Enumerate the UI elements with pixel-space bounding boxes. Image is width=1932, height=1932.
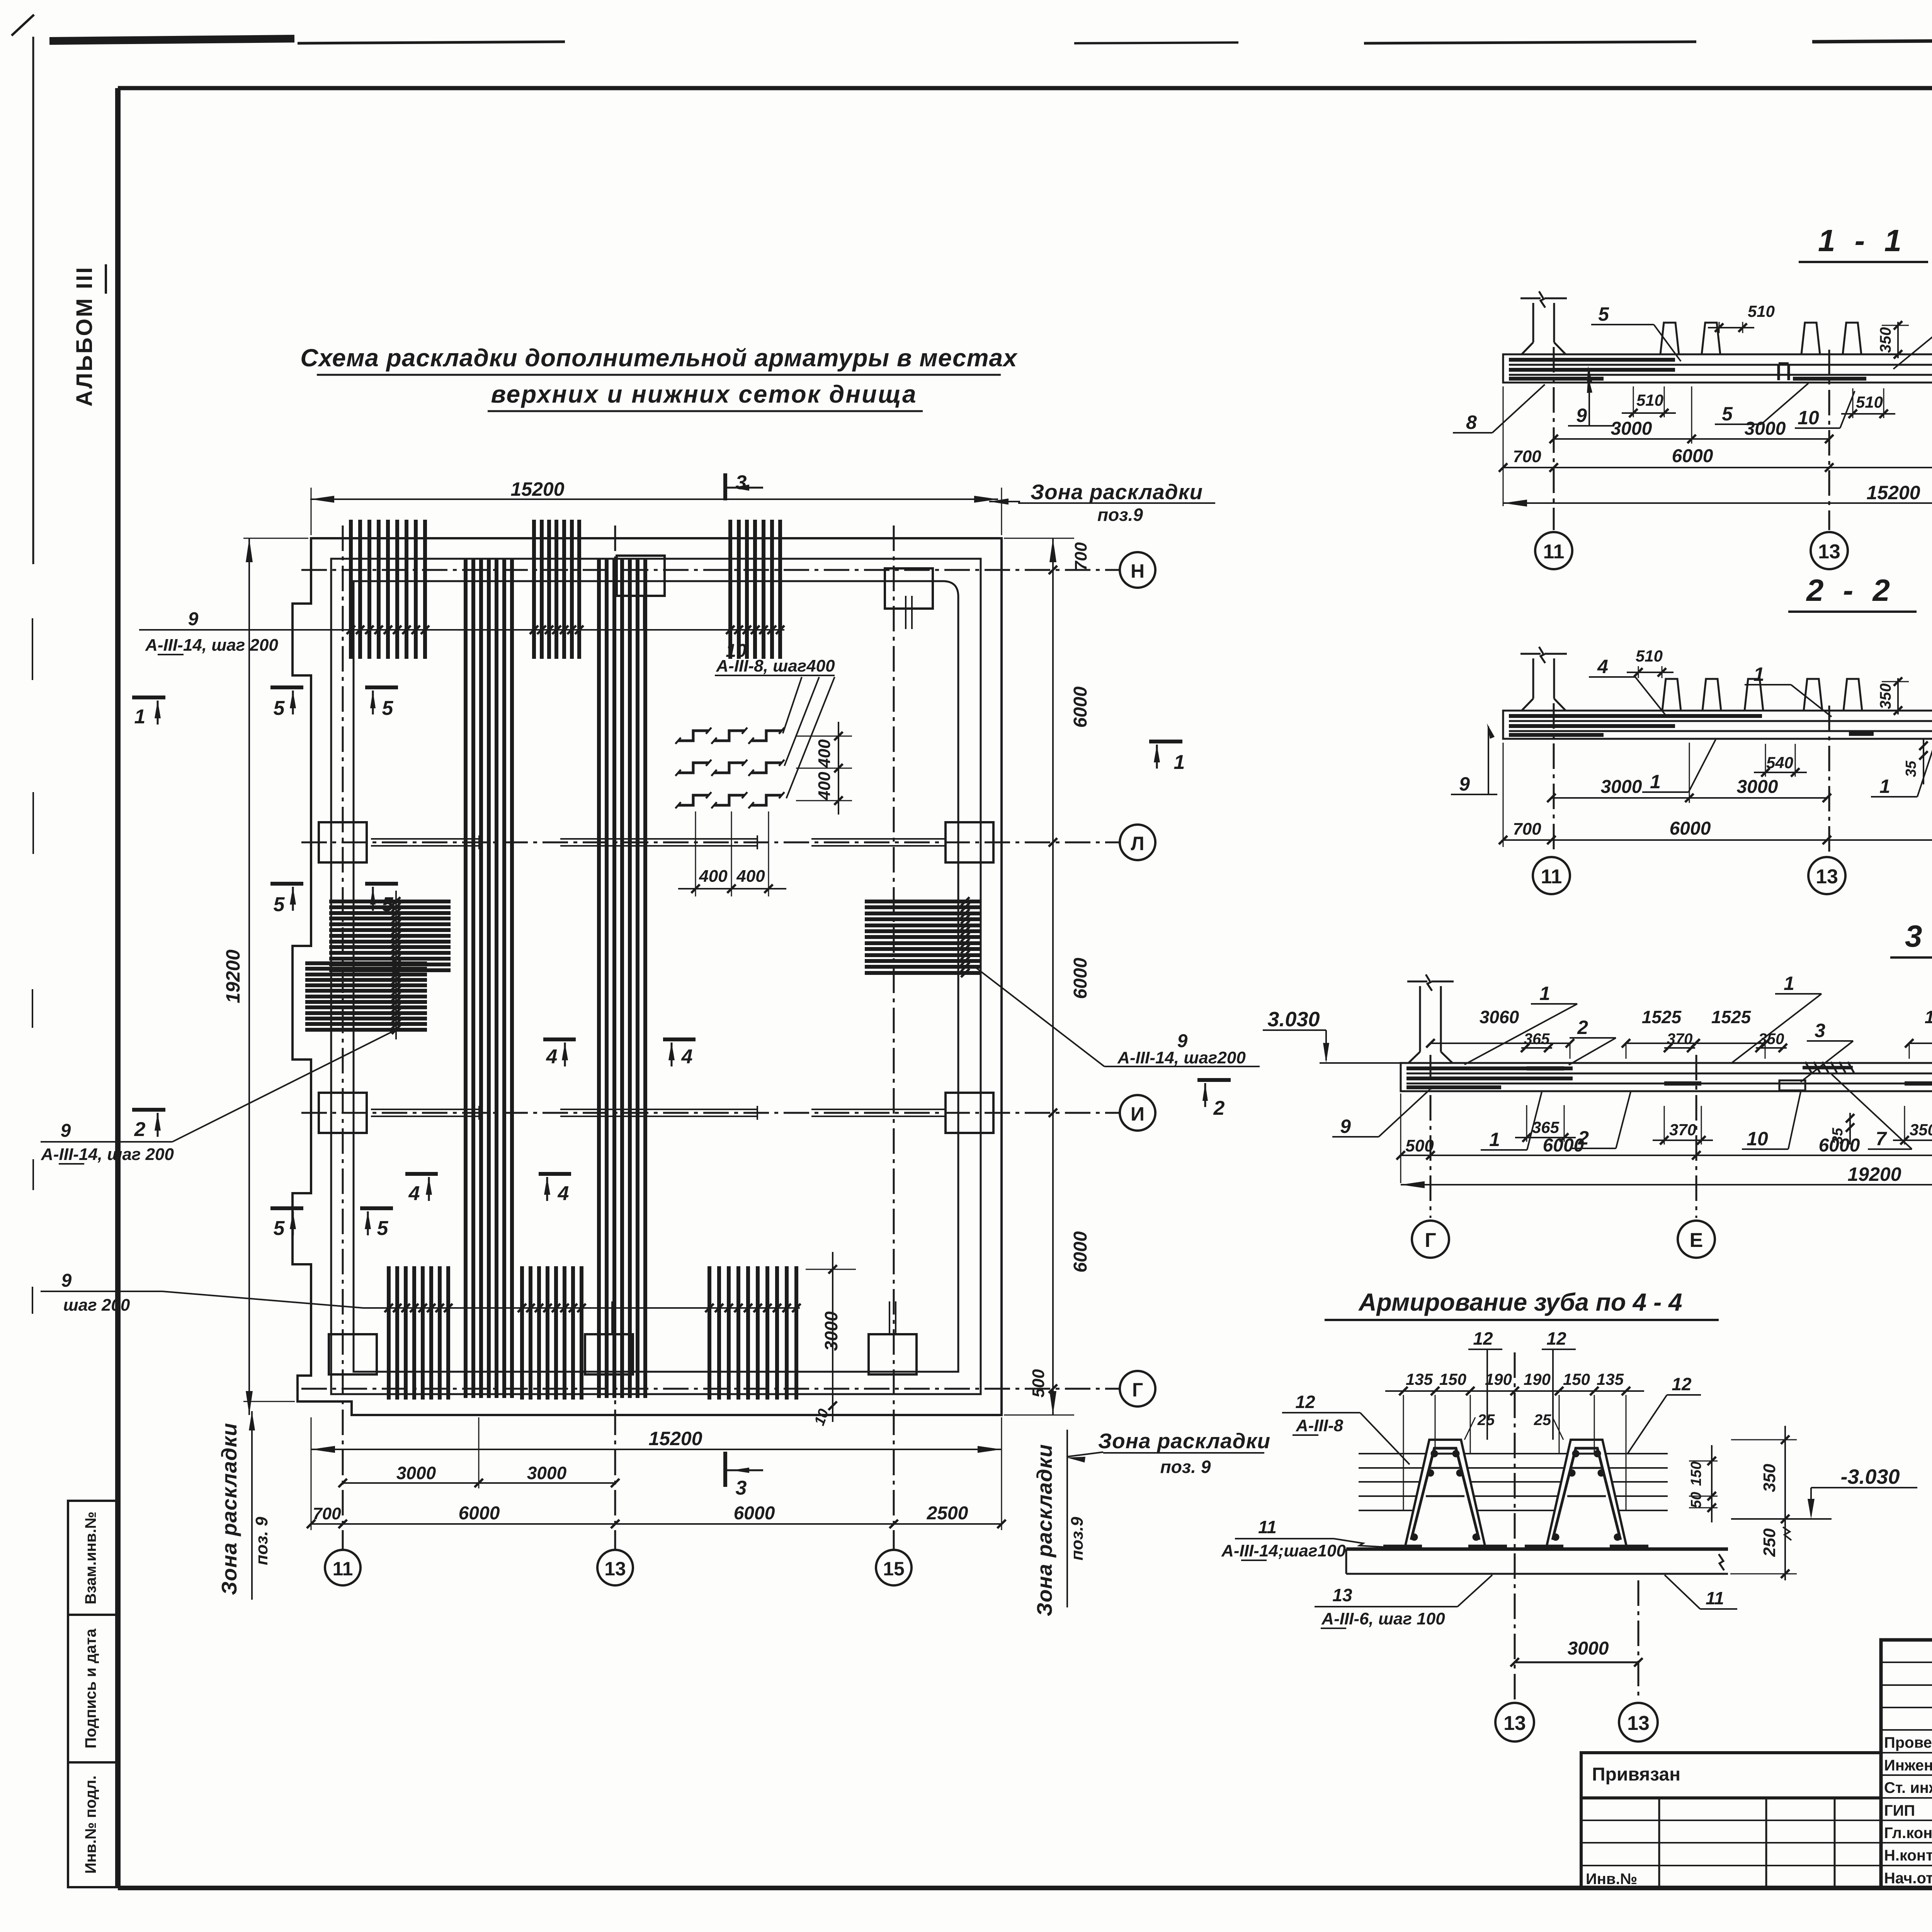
svg-text:А-III-6, шаг 100: А-III-6, шаг 100 — [1321, 1609, 1445, 1628]
section 1-1 dim row 15200 — [1503, 482, 1932, 507]
plan axis line Л — [301, 842, 1120, 844]
svg-text:6000: 6000 — [459, 1503, 500, 1524]
dimension 19200 (plan left) — [222, 538, 308, 1415]
section 1-1 dim row 3000 3000 — [1549, 386, 1833, 444]
svg-text:Инв.№ подл.: Инв.№ подл. — [82, 1776, 99, 1874]
svg-text:6000: 6000 — [1670, 818, 1711, 839]
svg-text:150: 150 — [1563, 1370, 1590, 1388]
svg-text:4: 4 — [681, 1046, 693, 1068]
layout line with ticks (middle-left, pos.9) — [392, 891, 400, 1039]
svg-text:5: 5 — [274, 1217, 285, 1240]
svg-text:поз. 9: поз. 9 — [1160, 1457, 1211, 1477]
svg-text:Зона раскладки: Зона раскладки — [1032, 1444, 1056, 1616]
svg-text:шаг 200: шаг 200 — [63, 1296, 130, 1315]
svg-text:Инженер: Инженер — [1884, 1757, 1932, 1774]
svg-text:1: 1 — [1879, 776, 1890, 797]
svg-text:3000: 3000 — [1611, 418, 1652, 439]
svg-text:Н.контр.: Н.контр. — [1884, 1847, 1932, 1864]
svg-text:Подпись и дата: Подпись и дата — [82, 1628, 99, 1748]
detail 4-4 right dims 350 250 — [1730, 1426, 1797, 1580]
svg-text:-3.030: -3.030 — [1840, 1465, 1900, 1488]
svg-text:500: 500 — [1405, 1136, 1434, 1155]
svg-text:510: 510 — [1636, 391, 1663, 409]
svg-text:Проверил: Проверил — [1884, 1734, 1932, 1751]
section 1-1 dim row 700 6000 6000 2500 — [1499, 386, 1932, 506]
svg-text:19200: 19200 — [222, 949, 244, 1003]
detail 4-4 tooth 2 outline — [1546, 1440, 1627, 1549]
leader lines to splice symbols — [783, 677, 802, 733]
detail 4-4 dim 3000 — [1510, 1638, 1643, 1667]
plan axis line И — [301, 1112, 1120, 1114]
rebar group pos.9 middle-left lower (horizontal) — [305, 963, 427, 1030]
svg-text:5: 5 — [382, 697, 394, 719]
left margin box Взам.инв.№ — [68, 1501, 118, 1615]
svg-text:Взам.инв.№: Взам.инв.№ — [82, 1512, 99, 1604]
zone label top-right Зона раскладки поз.9 — [989, 480, 1215, 525]
svg-text:Нач.отд.: Нач.отд. — [1884, 1870, 1932, 1887]
section 3-3 left wall — [1419, 986, 1421, 1052]
svg-text:поз.9: поз.9 — [1068, 1517, 1087, 1560]
zone label bottom-right Зона раскладки поз.9 (rotated) — [1032, 1430, 1087, 1616]
plan axis line 11 — [342, 526, 344, 1550]
detail 4-4 center axis 13 (left) — [1514, 1352, 1516, 1701]
svg-text:4: 4 — [408, 1182, 420, 1205]
svg-text:13: 13 — [1332, 1585, 1352, 1605]
section marks 5 (top pair) — [270, 685, 303, 689]
svg-text:И: И — [1131, 1103, 1145, 1125]
detail 4-4 tooth 2 reinforcement cage — [1525, 1448, 1648, 1547]
detail 4-4 axis 13 (right) — [1638, 1580, 1639, 1701]
svg-text:Зона раскладки: Зона раскладки — [217, 1423, 241, 1595]
section 3-3 bottom dim 350 — [1893, 1106, 1932, 1145]
column pad 13/Г — [585, 1334, 633, 1374]
svg-text:5: 5 — [1598, 303, 1609, 325]
detail 4-4 vertical grid/extension lines — [1403, 1395, 1626, 1511]
plan axis line 13 — [614, 526, 616, 1550]
axis circle Г (plan) — [1120, 1371, 1155, 1406]
svg-text:3000: 3000 — [527, 1463, 567, 1483]
zone label bottom-left Зона раскладки поз.9 (rotated) — [217, 1411, 271, 1600]
sheet torn top edge — [49, 36, 1932, 46]
svg-text:400: 400 — [699, 867, 728, 886]
svg-text:150: 150 — [1439, 1370, 1466, 1388]
svg-text:13: 13 — [604, 1558, 626, 1580]
detail 4-4 axis circles 13 13 — [1495, 1703, 1534, 1742]
section 2-2 axis lines — [1553, 703, 1555, 855]
svg-text:25: 25 — [1534, 1412, 1551, 1429]
detail 4-4 inner dims 150 50 — [1688, 1445, 1718, 1522]
svg-text:АЛЬБОМ III: АЛЬБОМ III — [72, 266, 97, 407]
svg-text:13: 13 — [1816, 866, 1838, 888]
svg-text:12: 12 — [1473, 1328, 1493, 1349]
section 2-2 left wall — [1532, 658, 1534, 699]
svg-text:Схема раскладки дополнительной: Схема раскладки дополнительной арматуры … — [300, 344, 1018, 372]
section 2-2 dim 540 left — [1754, 744, 1807, 777]
svg-text:12: 12 — [1295, 1392, 1315, 1412]
svg-text:3000: 3000 — [396, 1463, 436, 1483]
svg-text:Н: Н — [1131, 560, 1145, 582]
svg-text:13: 13 — [1818, 541, 1840, 563]
svg-text:3000: 3000 — [821, 1311, 841, 1351]
svg-text:3000: 3000 — [1568, 1638, 1609, 1659]
svg-text:Зона раскладки: Зона раскладки — [1031, 480, 1203, 504]
joint keys along axis И — [371, 1106, 946, 1120]
svg-text:1: 1 — [1489, 1129, 1500, 1150]
rebar group pos.9 bottom #3 — [709, 1266, 796, 1400]
svg-text:1525: 1525 — [1711, 1007, 1752, 1027]
rebar group pos.9 top #3 — [730, 520, 780, 659]
section 2-2 dim row 3000 3000 — [1547, 743, 1831, 803]
svg-text:11: 11 — [1706, 1588, 1724, 1608]
section 2-2 axis circles — [1533, 857, 1570, 894]
svg-text:13: 13 — [1503, 1712, 1526, 1735]
dimension 15200 (plan bottom) — [311, 1417, 1002, 1530]
section 3-3 bottom dim 365 left — [1515, 1105, 1576, 1142]
section 3-3 slab rebar — [1406, 1068, 1932, 1087]
svg-text:7: 7 — [1876, 1128, 1887, 1150]
svg-text:Привязан: Привязан — [1592, 1764, 1680, 1785]
axis circle И (plan) — [1120, 1095, 1155, 1131]
section 2-2 dim 350 tooth height — [1877, 677, 1909, 715]
svg-text:3000: 3000 — [1737, 777, 1778, 797]
detail 4-4 top dims 135 150 190 190 150 135 — [1385, 1370, 1644, 1395]
column pad 11/Л — [319, 822, 367, 862]
svg-text:400: 400 — [815, 739, 834, 768]
axis circle 15 (plan) — [876, 1550, 912, 1585]
svg-text:510: 510 — [1748, 302, 1775, 320]
dimension 400 400 (horizontal, splice grid) — [678, 811, 786, 896]
svg-text:9: 9 — [188, 609, 199, 629]
svg-text:1: 1 — [134, 706, 146, 728]
section 1-1 dim 510 below-left — [1622, 386, 1676, 417]
svg-text:11: 11 — [1541, 866, 1562, 888]
svg-text:10: 10 — [1747, 1128, 1768, 1150]
svg-text:350: 350 — [1910, 1121, 1932, 1139]
section 1-1 slab outline — [1503, 354, 1932, 383]
section 1-1 left wall — [1532, 303, 1534, 342]
title block small-column grid — [1881, 1640, 1932, 1888]
svg-text:500: 500 — [1029, 1369, 1048, 1398]
section 1-1 dim 510 top pair1 — [1708, 302, 1775, 333]
svg-text:А-III-8: А-III-8 — [1296, 1416, 1344, 1435]
section marks 4 (upper pair) — [543, 1037, 576, 1041]
section 3-3 hash bars pos.7 — [1803, 1062, 1932, 1073]
svg-text:11: 11 — [333, 1558, 353, 1580]
svg-text:5: 5 — [377, 1217, 389, 1240]
axis circle 13 (plan) — [597, 1550, 633, 1585]
section 2-2 dim 35 — [1903, 739, 1928, 784]
section 2-2 teeth — [1662, 679, 1681, 711]
section 1-1 dim 510 below-center — [1841, 388, 1895, 418]
svg-text:1525: 1525 — [1925, 1007, 1932, 1027]
svg-text:2: 2 — [1213, 1097, 1225, 1119]
svg-text:8: 8 — [1466, 412, 1477, 433]
section mark 3 (top) — [723, 473, 727, 500]
section 3-3 dim 35 — [1830, 1113, 1854, 1145]
detail 4-4 mesh grid lines — [1359, 1454, 1668, 1510]
rebar group pos.9 bottom #2 — [522, 1266, 582, 1400]
svg-text:1 - 1: 1 - 1 — [1818, 223, 1907, 258]
section 3-3 bottom dim 370 — [1653, 1106, 1713, 1145]
svg-text:4: 4 — [1597, 656, 1608, 677]
svg-text:А-III-8, шаг400: А-III-8, шаг400 — [716, 656, 835, 675]
svg-text:15200: 15200 — [648, 1428, 702, 1449]
svg-text:700: 700 — [1071, 542, 1090, 571]
svg-text:135: 135 — [1406, 1370, 1433, 1388]
column pad 13/Н — [617, 556, 665, 596]
svg-text:А-III-14, шаг200: А-III-14, шаг200 — [1117, 1048, 1246, 1067]
column pad 15/Г — [869, 1334, 917, 1374]
svg-text:Ст. инж.: Ст. инж. — [1884, 1779, 1932, 1796]
svg-text:12: 12 — [1672, 1374, 1692, 1394]
section 3-3 dim row 500 6000 6000 6000 700 — [1396, 1094, 1932, 1183]
svg-text:50: 50 — [1688, 1492, 1704, 1508]
svg-text:35: 35 — [1903, 760, 1919, 777]
svg-text:400: 400 — [736, 867, 765, 886]
svg-text:4: 4 — [558, 1182, 569, 1205]
section 1-1 slab rebar — [1509, 360, 1932, 379]
section 1-1 teeth — [1660, 323, 1679, 354]
svg-text:1: 1 — [1174, 751, 1185, 774]
svg-text:135: 135 — [1597, 1370, 1624, 1388]
rebar bundle pos.4 left (vertical) — [466, 559, 512, 1398]
plan wall outer face — [331, 559, 981, 1394]
svg-text:150: 150 — [1688, 1461, 1704, 1486]
svg-text:4: 4 — [546, 1046, 558, 1068]
plan axis line Н — [301, 569, 1120, 571]
svg-text:13: 13 — [1627, 1712, 1650, 1735]
rebar group pos.9 middle-right (horizontal) — [865, 897, 981, 977]
svg-text:6000: 6000 — [734, 1503, 775, 1524]
svg-text:250: 250 — [1760, 1528, 1779, 1557]
svg-text:6000: 6000 — [1543, 1135, 1584, 1156]
dimension 15200 (plan top) — [310, 478, 1002, 535]
section marks 5 (bottom pair) — [270, 1206, 303, 1210]
Привязан box — [1581, 1753, 1881, 1798]
svg-text:3: 3 — [1815, 1020, 1825, 1041]
plan wall inner face — [354, 581, 958, 1372]
svg-text:700: 700 — [313, 1504, 341, 1523]
svg-text:350: 350 — [1877, 684, 1894, 709]
rebar group pos.9 middle-left upper (horizontal) — [329, 901, 451, 970]
section 3-3 top dims 3060/1525 — [1426, 1007, 1932, 1059]
svg-text:А-III-14;шаг100: А-III-14;шаг100 — [1221, 1541, 1346, 1560]
section marks 4 (lower pair) — [405, 1172, 438, 1176]
svg-text:9: 9 — [61, 1121, 71, 1141]
detail 4-4 tooth 1 reinforcement cage — [1383, 1448, 1507, 1547]
dimension 700 6000 6000 2500 (plan bottom) — [307, 1503, 1006, 1528]
svg-text:10: 10 — [1798, 407, 1819, 429]
svg-text:3060: 3060 — [1480, 1007, 1519, 1027]
svg-text:9: 9 — [1459, 773, 1470, 795]
svg-text:Инв.№: Инв.№ — [1586, 1871, 1637, 1888]
svg-text:700: 700 — [1513, 447, 1541, 466]
detail 4-4 slab band — [1346, 1548, 1728, 1551]
column pad 11/И — [319, 1093, 367, 1133]
svg-text:2: 2 — [134, 1118, 146, 1141]
svg-text:190: 190 — [1524, 1370, 1551, 1388]
svg-text:365: 365 — [1532, 1118, 1560, 1136]
svg-text:25: 25 — [1477, 1412, 1495, 1429]
plan axis line Г — [301, 1388, 1120, 1390]
section mark 1 (left) — [132, 696, 165, 699]
svg-text:1: 1 — [1650, 771, 1661, 793]
svg-text:9: 9 — [1340, 1116, 1351, 1137]
svg-text:5: 5 — [274, 893, 285, 916]
column pad 15/Н — [885, 568, 933, 609]
plan slab edge outline (stepped) — [293, 538, 1002, 1415]
svg-text:5: 5 — [1722, 403, 1733, 425]
svg-text:5: 5 — [274, 697, 285, 719]
section mark 1 (right) — [1149, 740, 1182, 743]
svg-text:5: 5 — [382, 893, 394, 916]
svg-text:15: 15 — [883, 1558, 905, 1580]
svg-text:15200: 15200 — [1866, 482, 1920, 503]
plan axis line 15 — [893, 526, 895, 1550]
svg-text:3.030: 3.030 — [1267, 1008, 1320, 1031]
svg-text:1: 1 — [1784, 973, 1794, 994]
title block outer frame — [1881, 1640, 1932, 1888]
svg-text:Е: Е — [1690, 1229, 1703, 1252]
joint keys at top and bottom pads (vertical) — [606, 596, 912, 1334]
svg-text:350: 350 — [1760, 1464, 1779, 1492]
section 2-2 dim row 700 6000 6000 2500 — [1499, 743, 1932, 847]
section 1-1 stirrup hooks pos.10 — [1779, 362, 1789, 366]
section 3-3 small top dims 365/370/350/370/365 — [1521, 1031, 1932, 1052]
section 1-1 axis lines — [1553, 347, 1555, 530]
svg-text:Армирование зуба по 4 - 4: Армирование зуба по 4 - 4 — [1358, 1288, 1682, 1316]
dimension 3000 vertical at bottom group — [806, 1252, 856, 1428]
offset-splice symbols pos.10 (3x3 grid) — [675, 728, 784, 808]
dimension 3000 3000 (plan bottom) — [338, 1417, 619, 1488]
svg-text:9: 9 — [1576, 405, 1587, 426]
svg-text:1: 1 — [1539, 983, 1550, 1004]
rebar group pos.9 top #2 — [534, 520, 579, 659]
section mark 2 (right) — [1197, 1078, 1231, 1082]
svg-text:190: 190 — [1485, 1370, 1512, 1388]
svg-text:поз.9: поз.9 — [1097, 505, 1143, 525]
svg-text:12: 12 — [1546, 1328, 1566, 1349]
section 3-3 key rectangle pos.3 — [1779, 1080, 1805, 1090]
section 2-2 dim 510 top-left — [1627, 647, 1673, 678]
dimension 400 400 (vertical, splice grid) — [796, 722, 852, 815]
svg-text:3000: 3000 — [1745, 418, 1786, 439]
svg-text:Г: Г — [1425, 1229, 1436, 1252]
svg-text:Гл.констр: Гл.констр — [1884, 1825, 1932, 1842]
column pad И right — [946, 1093, 993, 1133]
svg-text:3000: 3000 — [1601, 777, 1642, 797]
svg-text:15200: 15200 — [510, 478, 564, 500]
svg-text:поз. 9: поз. 9 — [252, 1517, 271, 1565]
svg-text:2500: 2500 — [927, 1503, 968, 1524]
svg-text:350: 350 — [1877, 327, 1894, 353]
inventory mini table — [1581, 1798, 1881, 1888]
section 1-1 axis circles — [1535, 532, 1572, 569]
svg-text:ГИП: ГИП — [1884, 1802, 1915, 1819]
svg-text:3: 3 — [736, 471, 747, 494]
layout line with ticks (bottom, pos.9) — [363, 1304, 801, 1312]
svg-text:370: 370 — [1669, 1121, 1696, 1139]
left margin box Подпись и дата — [68, 1615, 118, 1762]
svg-text:19200: 19200 — [1847, 1163, 1901, 1185]
column pad Л right — [946, 822, 993, 862]
svg-text:510: 510 — [1856, 393, 1883, 411]
svg-text:11: 11 — [1543, 541, 1565, 563]
sheet left edge — [32, 37, 34, 564]
svg-text:6000: 6000 — [1672, 446, 1713, 466]
joint keys along axis Л — [371, 835, 946, 849]
svg-text:Зона раскладки: Зона раскладки — [1098, 1429, 1270, 1453]
rebar bundle pos.4 right (vertical) — [599, 559, 645, 1398]
svg-text:9: 9 — [61, 1270, 72, 1291]
left margin box Инв.№ подл. — [68, 1762, 118, 1887]
svg-text:3 - 3: 3 - 3 — [1905, 919, 1932, 953]
svg-text:6000: 6000 — [1070, 1231, 1091, 1272]
section 2-2 slab outline — [1503, 711, 1932, 739]
section mark 3 (bottom) — [723, 1452, 727, 1487]
rebar group pos.9 top #1 — [351, 520, 425, 659]
plan right vertical dimension chain 700/6000/6000/6000/500 — [1004, 538, 1091, 1415]
svg-text:А-III-14, шаг 200: А-III-14, шаг 200 — [41, 1145, 174, 1164]
section 3-3 axis lines — [1430, 1055, 1432, 1218]
svg-text:510: 510 — [1636, 647, 1663, 665]
svg-text:1: 1 — [1753, 663, 1764, 685]
svg-text:верхних и нижних сеток днища: верхних и нижних сеток днища — [491, 380, 917, 408]
svg-text:А-III-14, шаг 200: А-III-14, шаг 200 — [145, 636, 278, 655]
detail 4-4 tooth 1 outline — [1405, 1440, 1486, 1549]
svg-text:2: 2 — [1577, 1017, 1588, 1038]
svg-text:Л: Л — [1131, 833, 1144, 854]
svg-text:700: 700 — [1513, 820, 1541, 838]
section 3-3 axis circles — [1412, 1221, 1449, 1258]
svg-text:6000: 6000 — [1819, 1135, 1860, 1156]
section 2-2 slab rebar — [1509, 716, 1932, 735]
svg-text:6000: 6000 — [1070, 686, 1091, 728]
section 3-3 slab outline — [1401, 1063, 1932, 1091]
axis circle Л (plan) — [1120, 825, 1155, 860]
section mark 2 (left) — [132, 1108, 165, 1112]
layout line with ticks (top, pos.9) — [139, 626, 784, 634]
svg-text:6000: 6000 — [1070, 957, 1091, 999]
svg-text:11: 11 — [1258, 1517, 1277, 1537]
rebar group pos.9 bottom #1 — [389, 1266, 448, 1400]
zone label bottom-right Зона раскладки поз.9 (horizontal) — [1066, 1429, 1270, 1477]
svg-text:1525: 1525 — [1642, 1007, 1682, 1027]
axis circle 11 (plan) — [325, 1550, 361, 1585]
svg-text:2 - 2: 2 - 2 — [1806, 573, 1895, 607]
svg-text:Г: Г — [1132, 1379, 1143, 1401]
section marks 5 (middle pair) — [270, 882, 303, 886]
column pad 11/Г — [329, 1334, 377, 1374]
svg-text:3: 3 — [736, 1477, 747, 1499]
svg-text:400: 400 — [815, 772, 834, 801]
axis circle Н (plan) — [1120, 552, 1155, 588]
section 1-1 dim 350 tooth height — [1877, 321, 1909, 359]
section 3-3 dim row 19200 — [1401, 1163, 1932, 1188]
